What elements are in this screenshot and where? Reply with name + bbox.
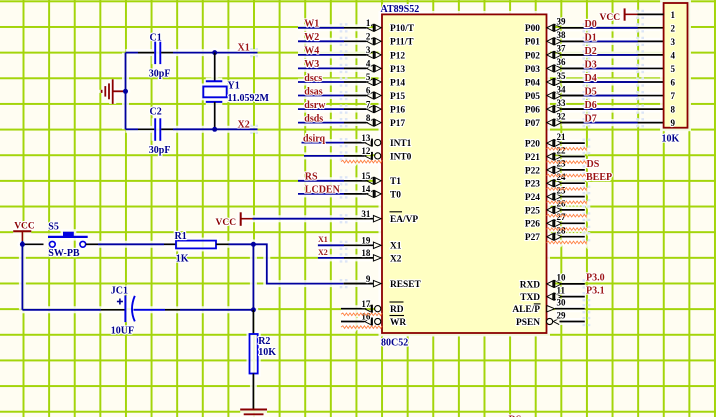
svg-text:30pF: 30pF [149, 145, 171, 156]
svg-text:P24: P24 [525, 193, 540, 203]
node W3 (net label) [304, 59, 319, 70]
svg-text:P21: P21 [525, 153, 540, 163]
wire net D6 (P06 to network pin 8) [562, 105, 664, 114]
svg-text:W1: W1 [304, 19, 319, 30]
pin 32 P07 (right) [525, 111, 590, 129]
svg-text:D5: D5 [585, 87, 597, 98]
node D6 (net label) [585, 100, 597, 111]
svg-text:13: 13 [361, 133, 371, 143]
pin 36 P03 (right) [525, 57, 590, 75]
network pin 6 number [671, 78, 676, 88]
pin 2 P11/T (left) [340, 32, 414, 48]
pin 39 P00 (right) [525, 17, 590, 35]
op-amp U1? no: microcontroller AT89S52 body [382, 14, 547, 333]
node dscs (net label) [304, 73, 322, 84]
svg-text:6: 6 [366, 86, 371, 96]
power VCC (reset) [13, 222, 35, 241]
network pin 2 number [671, 23, 676, 33]
svg-text:ALE/P: ALE/P [512, 305, 540, 315]
svg-text:19: 19 [361, 236, 371, 246]
no-connect squiggle P26 [547, 228, 587, 231]
wire VCC artifacts [636, 10, 644, 19]
node X1 chip-side (net label) [318, 235, 328, 244]
wire net dscs [298, 81, 344, 83]
svg-text:36: 36 [557, 57, 567, 67]
svg-text:6: 6 [671, 78, 676, 88]
svg-text:P10/T: P10/T [390, 24, 415, 34]
wire left rail (oscillator) [125, 53, 127, 130]
pin 26 P25 (right) [525, 199, 590, 217]
no-connect squiggle WR [341, 326, 382, 329]
network pin 8 number [671, 105, 676, 115]
svg-text:2: 2 [366, 32, 371, 42]
wire net dsrw [298, 108, 344, 110]
network pin 3 number [671, 37, 676, 47]
svg-text:9: 9 [366, 274, 371, 284]
svg-text:dsrw: dsrw [304, 100, 326, 111]
power VCC (EA pin) [216, 212, 253, 228]
switch S5 [48, 232, 88, 248]
pin 14 T0 (left) [340, 184, 402, 200]
no-connect squiggle RD [341, 313, 382, 316]
svg-text:P27: P27 [525, 233, 540, 243]
R2 value 10K [258, 347, 276, 358]
junction VCC-rail [20, 242, 25, 247]
node dsirq (net label) [303, 133, 325, 144]
pin 30 ALE/P (right) [512, 298, 590, 316]
svg-text:4: 4 [671, 50, 676, 60]
AT89S52 designator label [381, 4, 420, 15]
svg-text:INT1: INT1 [390, 139, 412, 149]
svg-text:33: 33 [557, 98, 567, 108]
svg-text:RS: RS [305, 172, 318, 183]
svg-text:12: 12 [361, 146, 371, 156]
JC1 designator [111, 286, 128, 297]
svg-text:P16: P16 [390, 106, 405, 116]
svg-text:80C52: 80C52 [381, 338, 408, 349]
node D0 (net label) [585, 19, 597, 30]
pin 12 INT0 (left) [340, 146, 412, 162]
svg-text:P11/T: P11/T [390, 38, 414, 48]
svg-text:P12: P12 [390, 51, 405, 61]
pin 8 P17 (left) [340, 113, 406, 129]
wire C1 to X1 junction [161, 52, 215, 54]
wire net D7 (P07 to network pin 9) [562, 118, 664, 127]
svg-text:5: 5 [366, 72, 371, 82]
svg-text:W2: W2 [304, 32, 319, 43]
svg-text:RD: RD [390, 305, 404, 315]
wire X2 stub end artifacts [250, 125, 258, 134]
svg-text:R1: R1 [175, 231, 187, 242]
svg-text:5: 5 [671, 64, 676, 74]
svg-text:BEEP: BEEP [586, 172, 612, 183]
no-connect squiggle P23 [547, 188, 587, 191]
svg-text:3: 3 [671, 37, 676, 47]
svg-text:WR: WR [390, 318, 406, 328]
svg-text:P17: P17 [390, 119, 405, 129]
no-connect squiggle P24 [547, 201, 587, 204]
pin 33 P06 (right) [525, 98, 590, 116]
node P3.0 (net label) [586, 273, 605, 284]
wire switch to R1 [86, 243, 176, 245]
network pin 1 number [671, 10, 676, 20]
wire net RS [298, 180, 344, 182]
svg-text:10UF: 10UF [111, 326, 134, 337]
wire net D5 (P05 to network pin 7) [562, 91, 664, 100]
svg-text:P02: P02 [525, 51, 540, 61]
ground (R2) [240, 410, 267, 415]
pin 37 P02 (right) [525, 44, 590, 62]
svg-text:VCC: VCC [14, 222, 35, 232]
resistor network RP1 body [664, 3, 688, 128]
pin 9 RESET (left) [340, 274, 422, 290]
80C52 value label [381, 338, 408, 349]
wire net D1 (P01 to network pin 3) [562, 37, 664, 46]
svg-text:9: 9 [671, 118, 676, 128]
no-connect squiggle P20 [547, 148, 587, 151]
no-connect squiggle P21 [547, 161, 587, 164]
svg-text:18: 18 [361, 248, 371, 258]
pin 11 TXD (right) [520, 285, 590, 303]
node DS partial (bottom edge) [509, 415, 522, 417]
node dsas (net label) [304, 86, 322, 97]
resistor R2 [250, 334, 258, 374]
pin 5 P14 (left) [340, 72, 406, 88]
pin 10 RXD (right) [520, 273, 591, 291]
pin 19 X1 (left) [340, 236, 402, 252]
wire net W4 [298, 54, 344, 56]
svg-text:W4: W4 [304, 46, 319, 57]
pin 29 PSEN (right) [516, 310, 590, 328]
wire net D2 (P02 to network pin 4) [562, 50, 664, 59]
svg-text:16: 16 [361, 312, 371, 322]
svg-text:TXD: TXD [520, 293, 540, 303]
node dsds (net label) [304, 113, 323, 124]
svg-text:P3.1: P3.1 [586, 285, 605, 296]
wire net X2 to chip [318, 257, 344, 259]
svg-text:DS: DS [587, 159, 600, 170]
capacitor JC1 (electrolytic) [125, 295, 134, 322]
pin 3 P12 (left) [340, 45, 406, 61]
svg-text:8: 8 [366, 113, 371, 123]
pin 21 P20 (right) [525, 132, 590, 150]
pin 22 P21 (right) [525, 145, 590, 163]
svg-text:D6: D6 [585, 100, 597, 111]
svg-text:21: 21 [557, 132, 567, 142]
svg-text:RESET: RESET [390, 280, 421, 290]
svg-text:P14: P14 [390, 78, 405, 88]
svg-text:W3: W3 [304, 59, 319, 70]
svg-text:SW-PB: SW-PB [48, 248, 80, 259]
R1 designator [175, 231, 187, 242]
svg-text:11.0592M: 11.0592M [228, 93, 270, 104]
pin 28 P27 (right) [525, 226, 590, 244]
svg-text:32: 32 [557, 111, 567, 121]
svg-text:2: 2 [671, 23, 676, 33]
pin 1 P10/T (left) [340, 18, 415, 34]
node W1 (net label) [304, 19, 319, 30]
svg-text:35: 35 [557, 71, 567, 81]
power VCC (network) [600, 8, 638, 22]
svg-text:17: 17 [361, 299, 371, 309]
capacitor C2 [155, 118, 160, 141]
pin 23 P22 (right) [525, 159, 590, 177]
pin 6 P15 (left) [340, 86, 406, 102]
wire net W1 [298, 27, 344, 29]
junction JC1-R2 [251, 307, 256, 312]
svg-text:34: 34 [557, 84, 567, 94]
wire net D4 (P04 to network pin 6) [562, 77, 664, 86]
svg-text:P07: P07 [525, 119, 540, 129]
svg-text:38: 38 [557, 30, 567, 40]
C2 value 30pF [149, 145, 171, 156]
svg-text:D7: D7 [585, 114, 597, 125]
JC1 value 10UF [111, 326, 134, 337]
pin 24 P23 (right) [525, 172, 590, 190]
svg-text:10K: 10K [662, 134, 680, 145]
svg-text:X2: X2 [318, 248, 328, 257]
svg-text:P04: P04 [525, 78, 540, 88]
junction R1-reset [251, 242, 256, 247]
node RS (net label) [305, 172, 318, 183]
junction X2 [212, 127, 217, 132]
wire net D3 (P03 to network pin 5) [562, 64, 664, 73]
wire net dsds [298, 122, 344, 124]
no-connect squiggle P25 [547, 214, 587, 217]
capacitor C1 [155, 42, 160, 65]
svg-text:14: 14 [361, 184, 371, 194]
pin 18 X2 (left) [340, 248, 402, 264]
wire VCC to switch [22, 241, 43, 244]
S5 value SW-PB [48, 248, 80, 259]
svg-text:R2: R2 [258, 336, 270, 347]
svg-text:T1: T1 [390, 177, 401, 187]
node W2 (net label) [304, 32, 319, 43]
pin 38 P01 (right) [525, 30, 590, 48]
resistor R1 [176, 241, 216, 249]
svg-text:11: 11 [557, 285, 566, 295]
wire junction down to JC1 junction [252, 244, 254, 309]
svg-text:dsas: dsas [304, 86, 322, 97]
svg-text:39: 39 [557, 17, 567, 27]
svg-text:8: 8 [671, 105, 676, 115]
pin 27 P26 (right) [525, 212, 590, 230]
wire C2 to X2 junction [161, 128, 215, 130]
wire X1 stub end artifacts [250, 48, 258, 57]
svg-text:30pF: 30pF [149, 69, 171, 80]
wire net dsirq [302, 142, 345, 144]
svg-text:D2: D2 [585, 46, 597, 57]
wire net D0 (P00 to network pin 2) [562, 23, 664, 32]
svg-text:X2: X2 [390, 254, 402, 264]
svg-text:1K: 1K [176, 253, 189, 264]
svg-text:EA/VP: EA/VP [390, 215, 418, 225]
node D4 (net label) [585, 73, 597, 84]
svg-text:37: 37 [557, 44, 567, 54]
svg-text:VCC: VCC [216, 218, 237, 228]
svg-text:10: 10 [557, 273, 567, 283]
wire rail to C2 [126, 128, 155, 130]
svg-text:P25: P25 [525, 206, 540, 216]
network pin 4 number [671, 50, 676, 60]
R2 designator [258, 336, 270, 347]
wire reset net to chip [253, 244, 372, 283]
svg-text:T0: T0 [390, 190, 401, 200]
svg-text:30: 30 [557, 298, 567, 308]
pin 13 INT1 (left) [340, 133, 412, 149]
Y1 value 11.0592M [228, 93, 270, 104]
pin 16 WR (left) [341, 312, 406, 328]
node D2 (net label) [585, 46, 597, 57]
svg-text:PSEN: PSEN [516, 318, 540, 328]
svg-text:dsirq: dsirq [303, 133, 325, 144]
svg-text:S5: S5 [48, 221, 59, 232]
wire net dsas [298, 95, 344, 97]
pin 17 RD (left) [341, 299, 404, 315]
wire rail to C1 [126, 52, 155, 54]
wire VCC to network pin 1 [638, 13, 664, 15]
R1 value 1K [176, 253, 189, 264]
JC1 plus sign [117, 299, 123, 305]
node X1 (net label) [238, 43, 250, 54]
svg-text:P01: P01 [525, 38, 540, 48]
S5 designator [48, 221, 59, 232]
svg-text:dscs: dscs [304, 73, 322, 84]
wire net W2 [298, 40, 344, 42]
svg-text:Y1: Y1 [228, 81, 240, 92]
svg-text:P23: P23 [525, 180, 540, 190]
svg-text:dsds: dsds [304, 113, 323, 124]
svg-text:P03: P03 [525, 65, 540, 75]
svg-text:X2: X2 [238, 119, 250, 130]
svg-text:AT89S52: AT89S52 [381, 4, 420, 15]
node X2 (net label) [238, 119, 250, 130]
svg-text:INT0: INT0 [390, 152, 412, 162]
svg-text:10K: 10K [258, 347, 276, 358]
svg-text:D0: D0 [585, 19, 597, 30]
node dsrw (net label) [304, 100, 326, 111]
svg-text:7: 7 [366, 99, 371, 109]
node D5 (net label) [585, 87, 597, 98]
svg-text:P20: P20 [525, 140, 540, 150]
svg-text:31: 31 [361, 209, 371, 219]
svg-text:C1: C1 [150, 33, 162, 44]
svg-text:P05: P05 [525, 92, 540, 102]
no-connect squiggle INT0 [341, 160, 382, 163]
C2 designator [150, 107, 162, 118]
node W4 (net label) [304, 46, 319, 57]
svg-text:29: 29 [557, 310, 567, 320]
wire R1 to junction [216, 243, 253, 245]
svg-text:LCDEN: LCDEN [305, 185, 341, 196]
svg-text:RXD: RXD [520, 280, 541, 290]
svg-text:15: 15 [361, 171, 371, 181]
svg-text:P3.0: P3.0 [586, 273, 605, 284]
svg-text:VCC: VCC [600, 13, 621, 23]
svg-text:4: 4 [366, 59, 371, 69]
wire net X1 to chip [318, 244, 344, 246]
wire VCC rail down to JC1 [22, 244, 124, 309]
node D3 (net label) [585, 59, 597, 70]
no-connect squiggle P27 [547, 241, 587, 244]
node BEEP (net label) [586, 172, 612, 183]
junction X1 [212, 50, 217, 55]
Y1 designator [228, 81, 240, 92]
C1 designator [150, 33, 162, 44]
pin 15 T1 (left) [340, 171, 402, 187]
pin 4 P13 (left) [340, 59, 406, 75]
svg-text:X1: X1 [238, 43, 250, 54]
svg-text:C2: C2 [150, 107, 162, 118]
junction ground-rail [123, 89, 128, 94]
svg-text:D1: D1 [585, 32, 597, 43]
wire INT0 stub (unlabeled) [304, 155, 344, 157]
node DS (net label) [587, 159, 600, 170]
wire net LCDEN [298, 193, 344, 195]
pin 35 P04 (right) [525, 71, 590, 89]
svg-text:X1: X1 [318, 235, 328, 244]
ground [102, 79, 124, 104]
svg-text:P13: P13 [390, 65, 405, 75]
node D1 (net label) [585, 32, 597, 43]
svg-text:P00: P00 [525, 24, 540, 34]
node LCDEN (net label) [305, 185, 341, 196]
wire X2 stub [215, 128, 258, 130]
svg-text:JC1: JC1 [111, 286, 128, 297]
wire R2 to ground [252, 374, 254, 410]
svg-text:P15: P15 [390, 92, 405, 102]
node D7 (net label) [585, 114, 597, 125]
wire junction to crystal top [214, 53, 216, 82]
no-connect squiggle P22 [547, 174, 587, 177]
pin 7 P16 (left) [340, 99, 406, 115]
wire JC1 to junction [134, 309, 254, 311]
wire VCC to EA pin [253, 218, 345, 220]
node X2 chip-side (net label) [318, 248, 328, 257]
wire crystal bottom to X2 junction [214, 102, 216, 129]
network pin 5 number [671, 64, 676, 74]
wire junction to R2 [252, 310, 254, 334]
svg-text:3: 3 [366, 45, 371, 55]
svg-text:1: 1 [366, 18, 371, 28]
svg-text:P06: P06 [525, 106, 540, 116]
svg-text:P22: P22 [525, 166, 540, 176]
svg-text:1: 1 [671, 10, 676, 20]
svg-text:D3: D3 [585, 59, 597, 70]
wire net W3 [298, 67, 344, 69]
network pin 9 number [671, 118, 676, 128]
node P3.1 (net label) [586, 285, 605, 296]
svg-text:D4: D4 [585, 73, 597, 84]
C1 value 30pF [149, 69, 171, 80]
pin 31 EA/VP (left) [340, 209, 419, 225]
pin 25 P24 (right) [525, 185, 590, 203]
svg-text:X1: X1 [390, 242, 402, 252]
svg-text:7: 7 [671, 91, 676, 101]
wire X1 stub [215, 52, 258, 54]
svg-text:P26: P26 [525, 220, 540, 230]
crystal Y1 [203, 81, 226, 102]
RP1 value 10K [662, 134, 680, 145]
pin 34 P05 (right) [525, 84, 590, 102]
network pin 7 number [671, 91, 676, 101]
